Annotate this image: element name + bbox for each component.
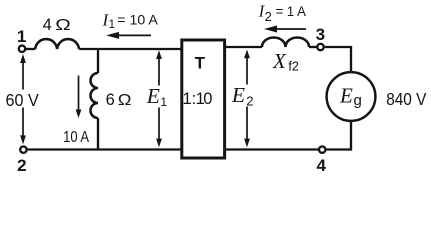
svg-text:Ω: Ω: [118, 90, 132, 109]
inductor L1 4 ohm: [35, 39, 79, 49]
svg-text:T: T: [195, 54, 206, 73]
current arrow I2 (points left): [275, 28, 306, 30]
svg-text:1: 1: [160, 95, 167, 109]
white backing for E1 label: [146, 86, 167, 108]
transformer T box: [182, 40, 225, 158]
svg-text:E: E: [339, 84, 353, 108]
svg-text:E: E: [146, 84, 160, 108]
wire: Eg generator bottom to bottom wire, left to terminal 4: [327, 121, 352, 150]
generator Eg circle: [327, 72, 376, 121]
inductor L2 6 ohm: [91, 73, 98, 118]
svg-text:6: 6: [106, 91, 115, 109]
svg-text:X: X: [272, 49, 287, 73]
svg-text:2: 2: [246, 94, 253, 109]
terminal 1: [19, 46, 25, 52]
terminal 2: [20, 146, 26, 152]
wire bottom-left: terminal 2 to transformer box: [27, 148, 182, 150]
svg-text:= 10 A: = 10 A: [117, 13, 158, 28]
svg-text:1: 1: [183, 90, 192, 108]
wire top-right: transformer to Xf2 coil: [225, 46, 263, 48]
svg-text:60 V: 60 V: [6, 90, 40, 110]
svg-text:3: 3: [316, 25, 325, 44]
wire top: coil to transformer box: [79, 48, 182, 50]
svg-text:2: 2: [265, 9, 272, 24]
terminal 4: [319, 146, 325, 152]
svg-text:= 1 A: = 1 A: [276, 4, 306, 19]
wire top-left: terminal 1 to 4-ohm coil: [26, 48, 36, 50]
terminal 3: [317, 44, 323, 50]
current arrow I1 (points left): [117, 34, 151, 36]
wire 6-ohm branch bottom drop: [97, 118, 99, 150]
wire 6-ohm branch top drop: [97, 49, 99, 73]
wire: Xf2 coil to terminal 3: [309, 46, 317, 48]
voltage arrow E1 (double headed): [158, 54, 160, 143]
svg-text:4: 4: [43, 16, 52, 34]
svg-text:g: g: [354, 92, 362, 109]
current arrow 10 A (points down): [78, 76, 80, 111]
svg-text:f2: f2: [288, 59, 298, 73]
svg-text:Ω: Ω: [55, 15, 71, 33]
svg-text:1: 1: [109, 19, 115, 31]
voltage arrow E2 (double headed): [246, 53, 248, 143]
voltage arrow 60 V (double headed): [22, 57, 24, 141]
svg-text:0: 0: [203, 90, 212, 108]
white backing for 60 V label: [4, 90, 42, 108]
wire bottom-right: transformer box to terminal 4: [225, 148, 319, 150]
svg-text:E: E: [231, 83, 245, 107]
svg-text:10 A: 10 A: [63, 129, 89, 146]
svg-text:4: 4: [316, 156, 326, 173]
svg-text:840 V: 840 V: [386, 89, 426, 109]
wire: terminal 3 to right corner, down to Eg generator: [325, 47, 351, 72]
svg-text:2: 2: [17, 156, 26, 173]
svg-text:1: 1: [17, 27, 26, 46]
white backing for E2 label: [230, 85, 256, 107]
inductor Xf2: [262, 38, 309, 48]
